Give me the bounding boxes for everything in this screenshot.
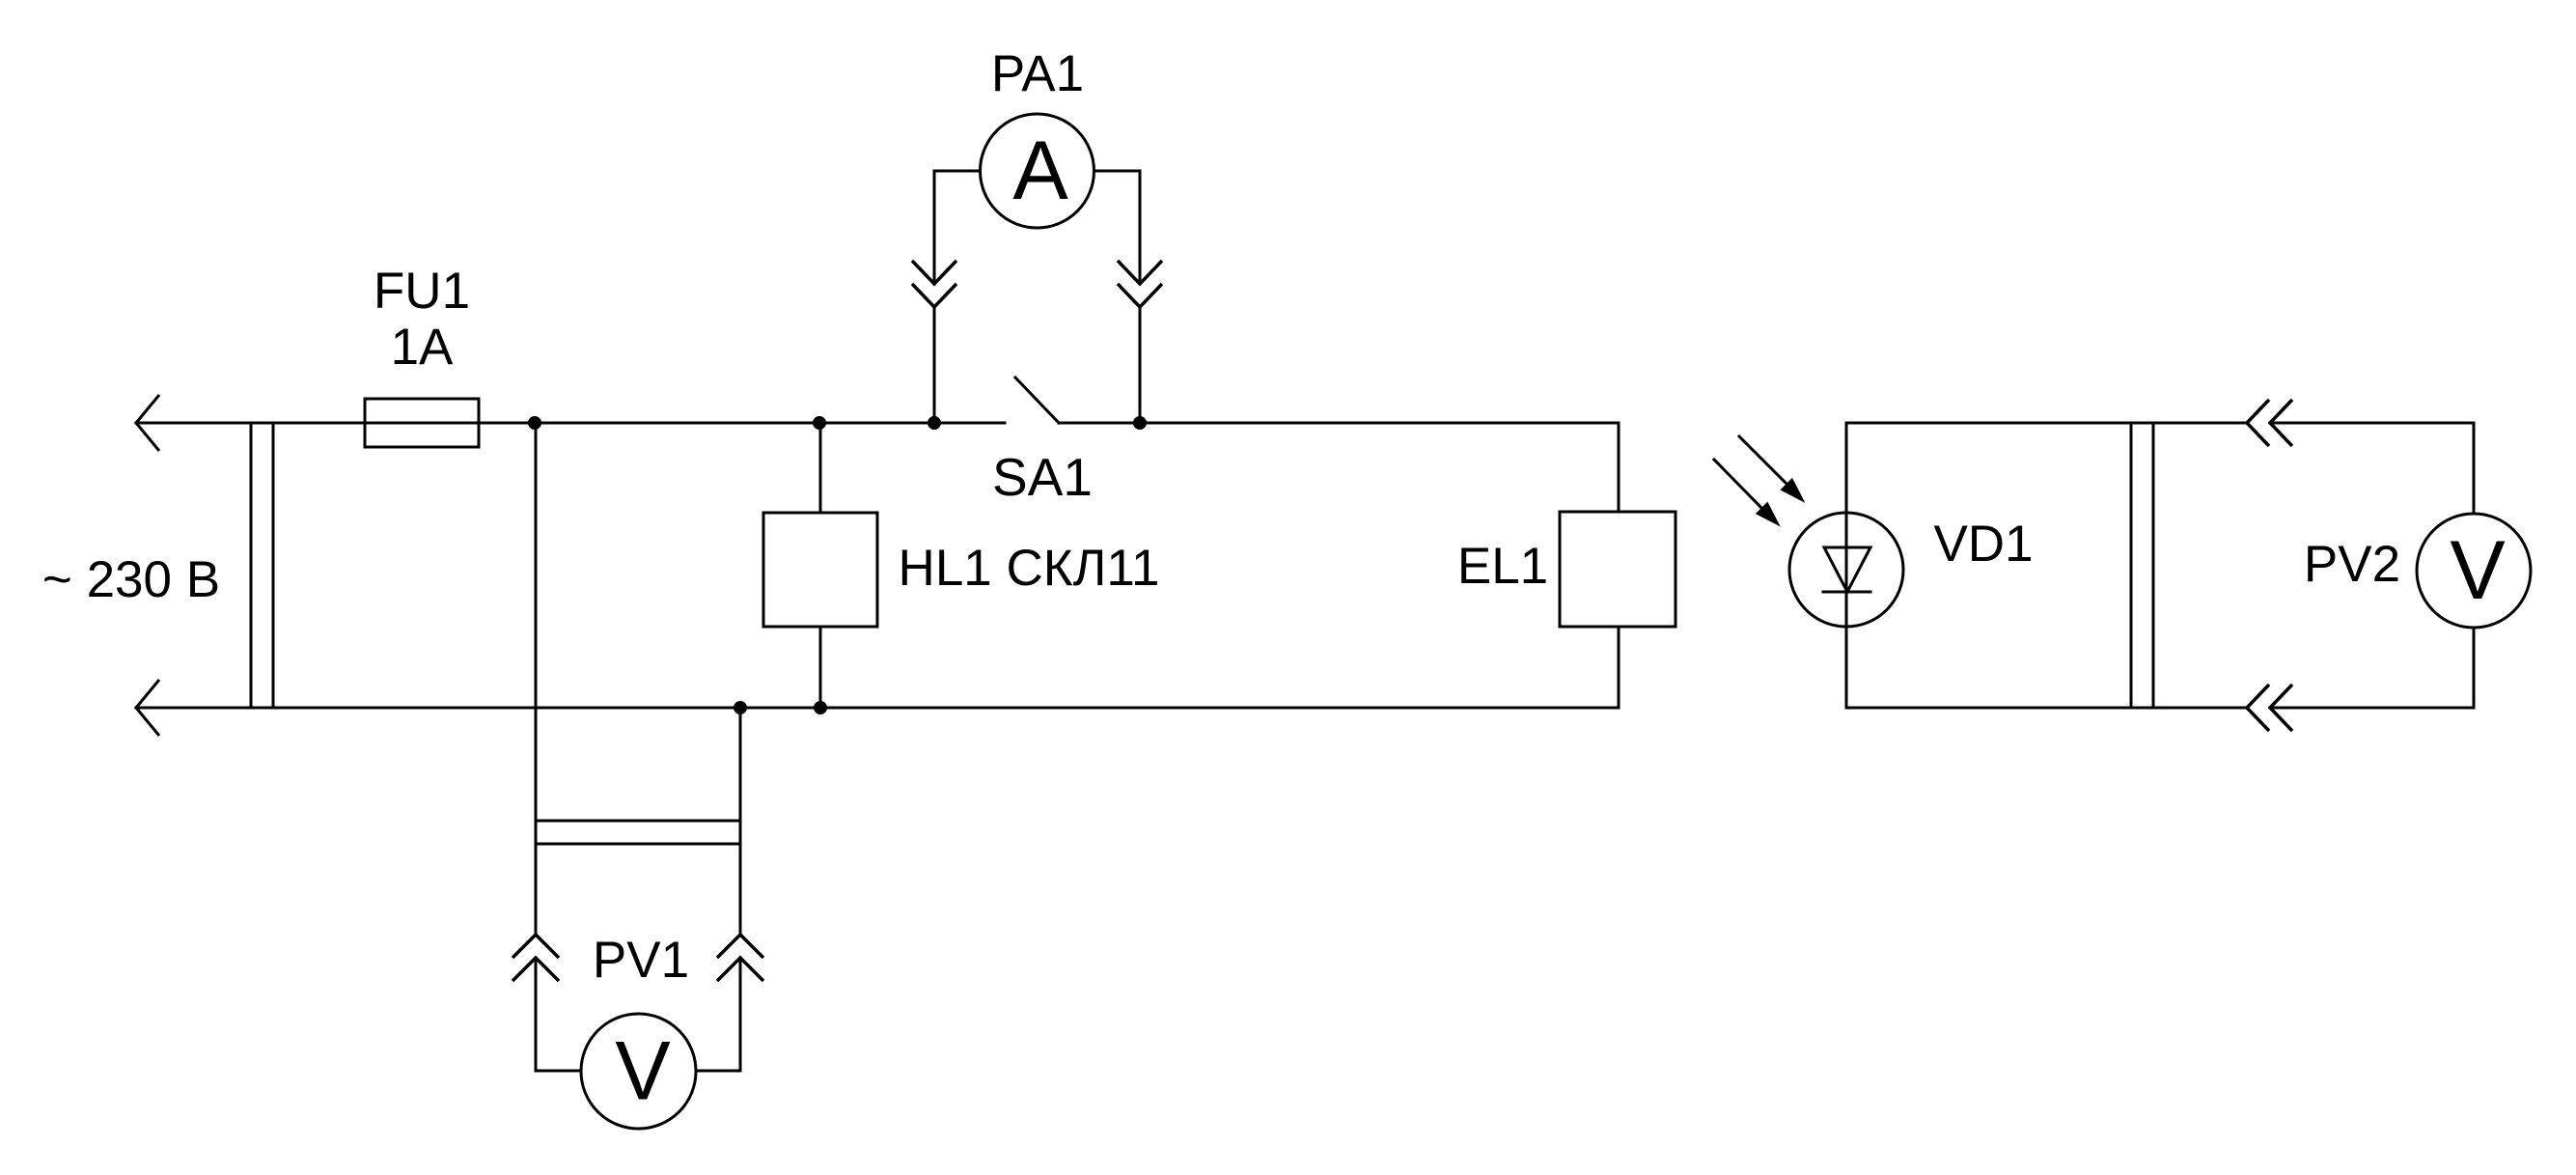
svg-text:V: V [2450, 524, 2505, 617]
wire EL1 bottom lead [1618, 627, 1620, 708]
wire HL1 top lead [819, 423, 822, 513]
wire VD1 through lead [1845, 423, 1848, 708]
svg-text:SA1: SA1 [992, 447, 1093, 507]
wire HL1 bottom lead [819, 627, 822, 708]
wire top bus left segment [136, 422, 1005, 425]
svg-text:PA1: PA1 [991, 45, 1084, 102]
wire PV1 right lower drop [739, 958, 742, 1071]
connector chevrons PV1 right [717, 935, 763, 981]
node dot top bus at PA1 left [928, 416, 941, 430]
wire PV2 bottom lead [2473, 628, 2476, 708]
node dot top bus at PA1 right [1133, 416, 1147, 430]
connector chevrons PV1 left [512, 935, 559, 981]
arrow input top-left [136, 395, 159, 451]
switch SA1 blade [1015, 378, 1059, 423]
connector X source double line [251, 423, 273, 708]
wire PA1 right horizontal [1094, 170, 1140, 173]
wire right loop top left segment [1846, 422, 2247, 425]
svg-text:EL1: EL1 [1457, 538, 1548, 595]
wire right loop top right segment [2270, 422, 2474, 425]
connector chevrons PA1 left [912, 261, 956, 307]
lamp EL1 box [1560, 512, 1676, 627]
wire PV2 top lead [2473, 423, 2476, 514]
wire PA1 left horizontal [934, 170, 981, 173]
photodiode VD1 triangle [1824, 547, 1870, 592]
wire PV1 left horizontal [536, 1070, 582, 1073]
node dot bottom bus at HL1 [814, 701, 827, 714]
wire top bus right segment [1059, 422, 1619, 425]
lamp HL1 box [763, 513, 877, 627]
wire bottom bus [136, 707, 1619, 710]
wire right loop bottom left segment [1846, 707, 2247, 710]
connector X PV1 double bar [536, 821, 740, 844]
voltmeter PV1 circle [581, 1014, 696, 1129]
svg-text:~ 230 В: ~ 230 В [42, 551, 220, 608]
arrow input bottom-left [136, 680, 159, 736]
light arrow 1 [1739, 436, 1803, 501]
svg-text:FU1: FU1 [374, 263, 470, 320]
svg-text:1A: 1A [391, 319, 454, 376]
photodiode VD1 circle [1789, 513, 1903, 627]
svg-text:HL1 СКЛ11: HL1 СКЛ11 [899, 540, 1160, 597]
svg-text:A: A [1012, 125, 1068, 217]
wire PA1 left drop [933, 171, 936, 423]
wire PV1 right drop from bottom bus [739, 708, 742, 935]
connector chevrons loop bottom [2247, 685, 2292, 731]
wire right loop bottom right segment [2270, 707, 2474, 710]
wire PV1 right horizontal [696, 1070, 740, 1073]
svg-text:PV1: PV1 [593, 932, 689, 989]
svg-text:V: V [615, 1025, 670, 1118]
connector chevrons PA1 right [1118, 261, 1162, 307]
svg-text:PV2: PV2 [2304, 536, 2400, 593]
connector X loop double line [2131, 423, 2153, 708]
wire EL1 top lead [1618, 423, 1620, 512]
node dot top bus at HL1 [813, 416, 826, 430]
photodiode VD1 cathode bar [1823, 591, 1870, 594]
wire PV1 left lower drop [535, 958, 538, 1071]
fuse FU1 [365, 399, 479, 447]
wire PV1 left drop from top bus [535, 423, 538, 935]
voltmeter PV2 circle [2417, 514, 2531, 628]
light arrow 2 [1714, 460, 1778, 524]
svg-text:VD1: VD1 [1933, 516, 2033, 573]
node dot bottom bus at PV1 [734, 701, 747, 714]
node dot top bus at PV1 drop [528, 416, 541, 430]
connector chevrons loop top [2247, 400, 2292, 446]
wire PA1 right drop [1139, 171, 1142, 423]
ammeter PA1 circle [981, 114, 1094, 228]
